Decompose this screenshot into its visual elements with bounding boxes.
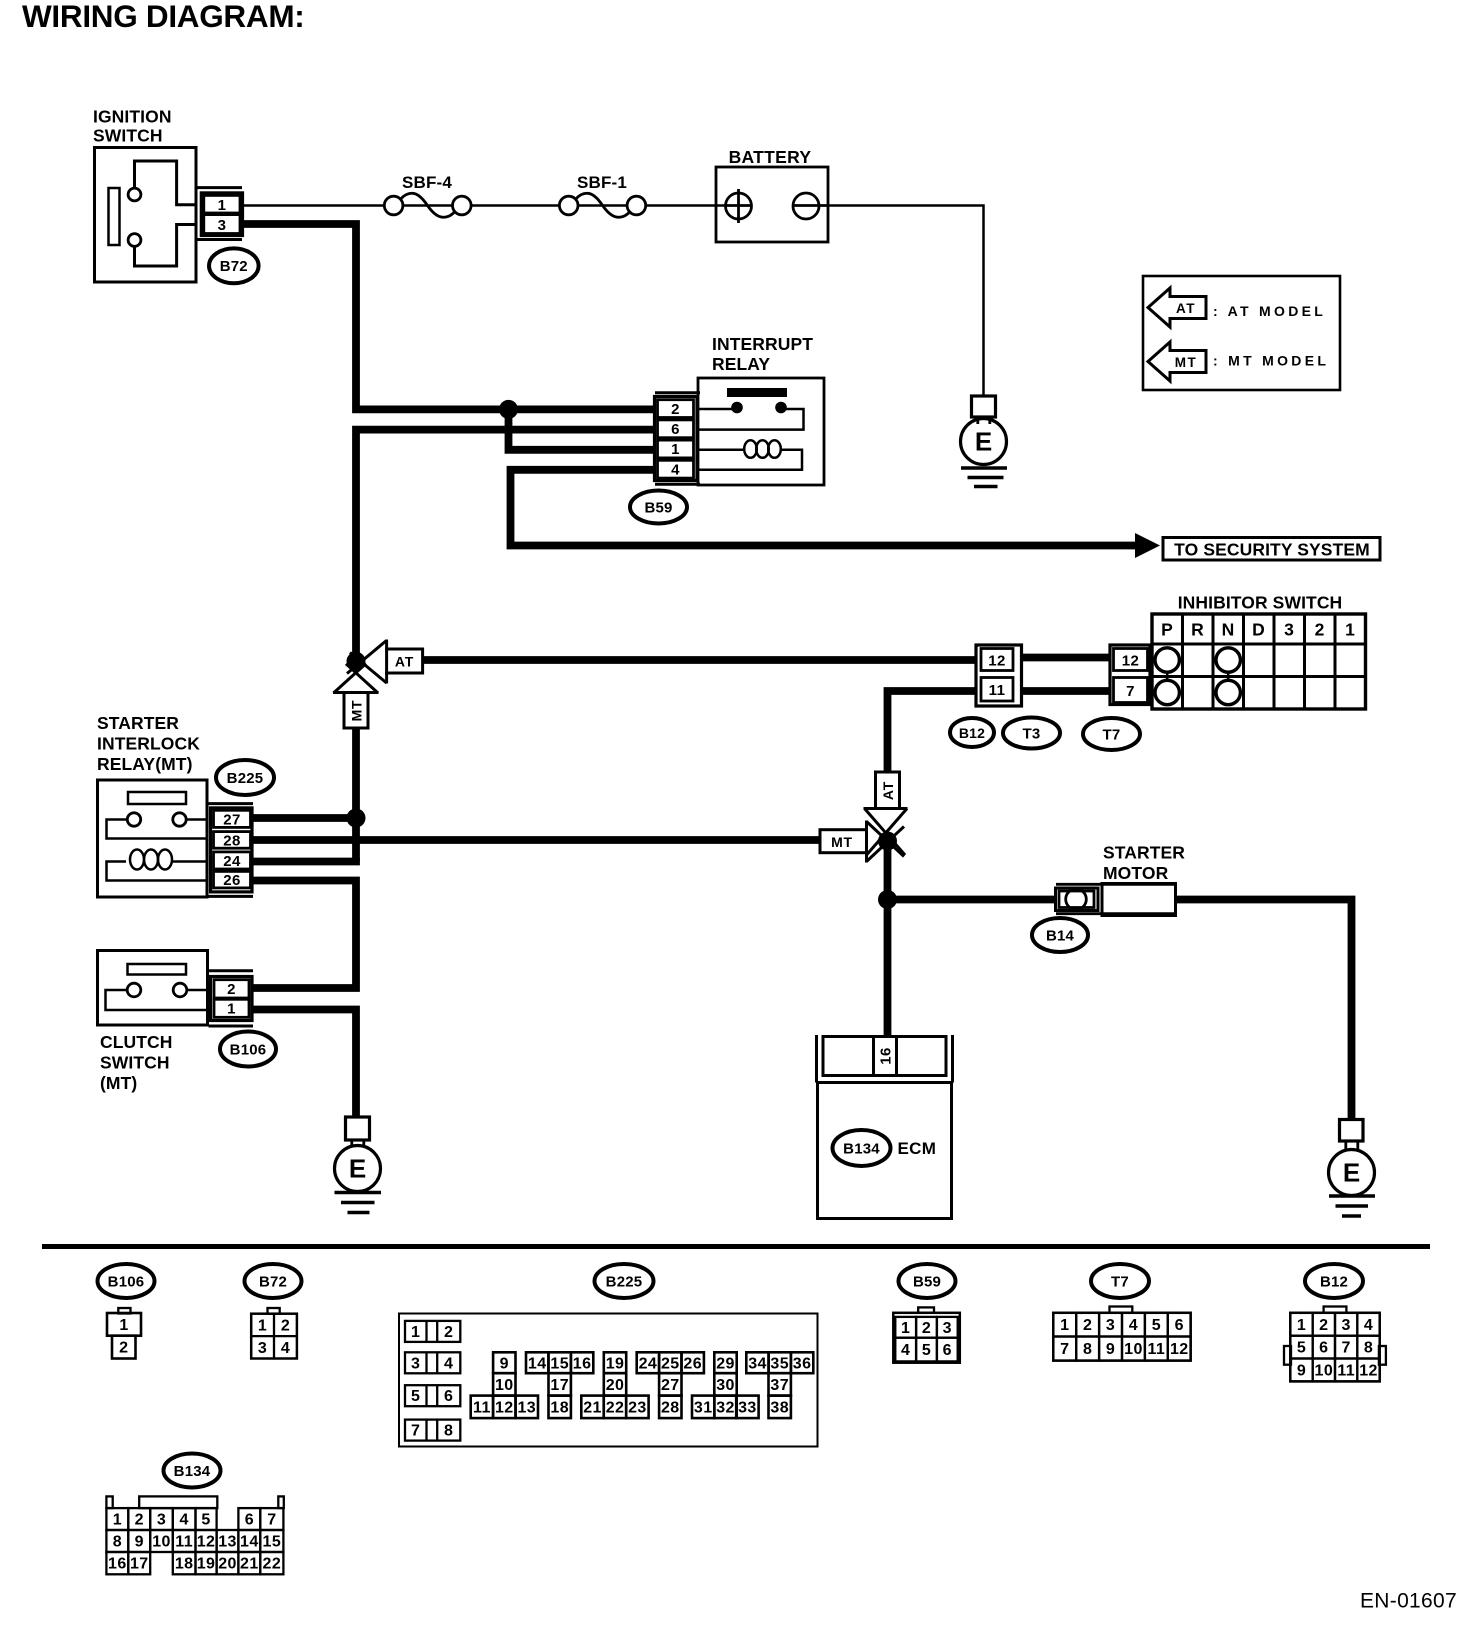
svg-text:E: E bbox=[1343, 1158, 1360, 1188]
wire pin26 down to clutch pin2 bbox=[252, 881, 356, 989]
MT arrow junction2 bbox=[867, 822, 905, 857]
wire 11 to T7 pin7 bbox=[1022, 687, 1111, 695]
svg-text:11: 11 bbox=[1147, 1341, 1165, 1358]
connector label B106 pinout bbox=[98, 1264, 155, 1298]
svg-text:SBF-4: SBF-4 bbox=[402, 173, 452, 192]
connector label B225 bbox=[216, 760, 274, 795]
security system arrowhead bbox=[1135, 533, 1160, 558]
svg-text:INHIBITOR SWITCH: INHIBITOR SWITCH bbox=[1178, 593, 1343, 613]
wire AT branch to inhibitor row 12 bbox=[420, 656, 977, 664]
svg-text:AT: AT bbox=[1176, 301, 1196, 316]
svg-text:13: 13 bbox=[218, 1534, 237, 1551]
svg-text:12: 12 bbox=[1122, 653, 1140, 670]
svg-text:6: 6 bbox=[1175, 1317, 1184, 1334]
wire battery to ground bbox=[828, 206, 984, 397]
connector label B134 bbox=[833, 1130, 891, 1166]
svg-text:16: 16 bbox=[878, 1047, 895, 1065]
inhibitor contact P-12 bbox=[1155, 648, 1179, 672]
svg-text:26: 26 bbox=[223, 872, 241, 889]
svg-text:7: 7 bbox=[411, 1423, 420, 1440]
svg-text:: AT MODEL: : AT MODEL bbox=[1213, 303, 1326, 319]
svg-text:T7: T7 bbox=[1103, 726, 1121, 743]
wire junction to ECM pin16 bbox=[884, 900, 892, 1037]
wire pin24 bbox=[252, 858, 360, 866]
svg-text:BATTERY: BATTERY bbox=[729, 147, 812, 167]
svg-text:1: 1 bbox=[218, 197, 227, 214]
svg-text:5: 5 bbox=[1152, 1317, 1161, 1334]
svg-text:3: 3 bbox=[1342, 1317, 1351, 1334]
svg-text:22: 22 bbox=[263, 1556, 282, 1573]
AT arrow junction1 bbox=[347, 641, 387, 674]
svg-text:29: 29 bbox=[716, 1355, 735, 1372]
junction dot 2 bbox=[878, 832, 897, 851]
svg-text:1: 1 bbox=[119, 1317, 128, 1334]
svg-text:15: 15 bbox=[550, 1355, 569, 1372]
svg-text:19: 19 bbox=[197, 1556, 216, 1573]
svg-text:1: 1 bbox=[113, 1512, 122, 1529]
svg-text:2: 2 bbox=[1315, 620, 1325, 640]
svg-text:2: 2 bbox=[444, 1324, 453, 1341]
wire clutch pin1 to ground bbox=[252, 1010, 356, 1118]
svg-text:7: 7 bbox=[1342, 1340, 1351, 1357]
svg-text:8: 8 bbox=[1364, 1340, 1373, 1357]
svg-text:14: 14 bbox=[528, 1355, 547, 1372]
svg-text:15: 15 bbox=[263, 1534, 282, 1551]
svg-text:28: 28 bbox=[223, 832, 241, 849]
svg-text:6: 6 bbox=[943, 1342, 952, 1359]
svg-text:2: 2 bbox=[671, 401, 680, 418]
connector label B12 pinout bbox=[1305, 1264, 1363, 1298]
connector label B72 pinout bbox=[245, 1264, 302, 1298]
svg-text:TO SECURITY SYSTEM: TO SECURITY SYSTEM bbox=[1174, 540, 1370, 560]
svg-text:2: 2 bbox=[119, 1340, 128, 1357]
svg-text:33: 33 bbox=[738, 1399, 757, 1416]
svg-text:B134: B134 bbox=[174, 1463, 211, 1480]
svg-text:AT: AT bbox=[880, 781, 896, 800]
connector label B12 bbox=[950, 718, 994, 747]
svg-text:9: 9 bbox=[135, 1534, 144, 1551]
svg-text:11: 11 bbox=[473, 1399, 491, 1416]
svg-text:RELAY(MT): RELAY(MT) bbox=[97, 754, 193, 774]
svg-text:P: P bbox=[1161, 620, 1173, 640]
svg-text:12: 12 bbox=[1170, 1341, 1189, 1358]
svg-text:3: 3 bbox=[411, 1355, 420, 1372]
connector B225 pinout bbox=[399, 1314, 818, 1447]
ground E battery bbox=[972, 396, 996, 417]
svg-text:2: 2 bbox=[135, 1512, 144, 1529]
wire pin1 to SBF-4 bbox=[242, 204, 385, 207]
svg-text:10: 10 bbox=[495, 1377, 514, 1394]
svg-text:23: 23 bbox=[628, 1399, 647, 1416]
connector T7 pins 12,7 bbox=[1110, 645, 1150, 705]
svg-text:36: 36 bbox=[793, 1355, 812, 1372]
wire pin27 to junction bbox=[252, 814, 356, 822]
svg-text:31: 31 bbox=[694, 1399, 713, 1416]
junction dot 1 bbox=[347, 652, 366, 671]
main vertical wire below MT arrow bbox=[352, 728, 360, 862]
svg-text:11: 11 bbox=[989, 682, 1006, 699]
svg-text:14: 14 bbox=[240, 1534, 259, 1551]
wire interrupt relay pin4 to security line bbox=[511, 470, 1137, 546]
connector label T3 bbox=[1003, 718, 1060, 749]
svg-text:1: 1 bbox=[901, 1320, 910, 1337]
svg-text:27: 27 bbox=[661, 1377, 680, 1394]
connector B225 pins 27,28,24,26 bbox=[209, 802, 254, 805]
svg-text:16: 16 bbox=[108, 1556, 127, 1573]
svg-text:2: 2 bbox=[227, 981, 236, 998]
svg-text:4: 4 bbox=[1129, 1317, 1138, 1334]
svg-text:B59: B59 bbox=[913, 1273, 941, 1290]
svg-text:SWITCH: SWITCH bbox=[100, 1053, 170, 1073]
junction dot starter bbox=[878, 890, 897, 909]
svg-text:RELAY: RELAY bbox=[712, 354, 770, 374]
svg-text:17: 17 bbox=[550, 1377, 569, 1394]
svg-text:R: R bbox=[1191, 620, 1204, 640]
connector label B106 bbox=[220, 1032, 276, 1067]
svg-text:MT: MT bbox=[348, 700, 364, 722]
svg-text:ECM: ECM bbox=[898, 1139, 937, 1158]
svg-text:B72: B72 bbox=[220, 258, 248, 275]
svg-text:17: 17 bbox=[130, 1556, 149, 1573]
connector B106 pinout bbox=[118, 1308, 130, 1314]
svg-text:4: 4 bbox=[179, 1512, 188, 1529]
svg-text:4: 4 bbox=[281, 1340, 290, 1357]
svg-text:T7: T7 bbox=[1111, 1273, 1129, 1290]
connector label B59 bbox=[630, 491, 687, 524]
connector B59 pins 2,6,1,4 bbox=[655, 391, 700, 394]
svg-text:10: 10 bbox=[1315, 1362, 1334, 1379]
svg-text:1: 1 bbox=[411, 1324, 420, 1341]
svg-text:5: 5 bbox=[201, 1512, 210, 1529]
svg-text:MT: MT bbox=[831, 834, 853, 850]
svg-text:26: 26 bbox=[683, 1355, 702, 1372]
svg-text:9: 9 bbox=[1106, 1341, 1115, 1358]
svg-text:2: 2 bbox=[281, 1318, 290, 1335]
connector label B72 bbox=[209, 248, 259, 283]
svg-text:4: 4 bbox=[1364, 1317, 1373, 1334]
svg-text:E: E bbox=[349, 1154, 366, 1184]
svg-text:: MT MODEL: : MT MODEL bbox=[1213, 353, 1329, 369]
legend MT arrow bbox=[1148, 342, 1206, 381]
svg-text:INTERRUPT: INTERRUPT bbox=[712, 334, 813, 354]
wire SBF-1 to battery bbox=[646, 204, 726, 207]
svg-text:3: 3 bbox=[258, 1340, 267, 1357]
svg-text:12: 12 bbox=[495, 1399, 514, 1416]
wire pin28 to MT arrow bbox=[252, 836, 822, 844]
connector B59 pinout bbox=[918, 1307, 934, 1312]
svg-text:IGNITION: IGNITION bbox=[93, 107, 172, 127]
svg-text:4: 4 bbox=[901, 1342, 910, 1359]
ground E starter bbox=[1340, 1120, 1364, 1142]
MT arrow junction1 bbox=[334, 664, 367, 694]
svg-text:B225: B225 bbox=[606, 1273, 643, 1290]
connector B72 pins 1,3 bbox=[197, 186, 242, 189]
svg-text:20: 20 bbox=[606, 1377, 625, 1394]
svg-text:27: 27 bbox=[223, 811, 241, 828]
svg-text:3: 3 bbox=[157, 1512, 166, 1529]
svg-text:7: 7 bbox=[267, 1512, 276, 1529]
wire junction to interrupt relay pin1 bbox=[509, 409, 656, 449]
svg-text:32: 32 bbox=[716, 1399, 735, 1416]
wire 11 branch down to AT arrow bbox=[888, 691, 978, 772]
svg-text:6: 6 bbox=[444, 1388, 453, 1405]
svg-text:8: 8 bbox=[113, 1534, 122, 1551]
inhibitor contact P-7 bbox=[1155, 680, 1179, 704]
svg-text:1: 1 bbox=[1297, 1317, 1306, 1334]
svg-text:3: 3 bbox=[218, 217, 227, 234]
svg-text:38: 38 bbox=[770, 1399, 789, 1416]
svg-text:SWITCH: SWITCH bbox=[93, 126, 163, 146]
svg-text:B72: B72 bbox=[259, 1273, 287, 1290]
svg-text:STARTER: STARTER bbox=[97, 713, 179, 733]
svg-text:24: 24 bbox=[639, 1355, 658, 1372]
ignition switch bbox=[95, 148, 197, 283]
svg-text:6: 6 bbox=[671, 421, 680, 438]
svg-text:16: 16 bbox=[573, 1355, 592, 1372]
svg-text:B59: B59 bbox=[644, 499, 672, 516]
svg-text:10: 10 bbox=[1124, 1341, 1143, 1358]
ground E clutch bbox=[346, 1117, 370, 1140]
inhibitor contact N-12 bbox=[1216, 648, 1240, 672]
wire to interrupt relay pin2 bbox=[352, 405, 655, 413]
svg-text:CLUTCH: CLUTCH bbox=[100, 1032, 173, 1052]
svg-text:N: N bbox=[1222, 620, 1235, 640]
svg-text:B134: B134 bbox=[843, 1140, 880, 1157]
svg-text:B225: B225 bbox=[227, 770, 264, 787]
svg-text:21: 21 bbox=[583, 1399, 602, 1416]
svg-text:24: 24 bbox=[223, 853, 241, 870]
connector B14 bbox=[1056, 883, 1176, 886]
connector label T7 bbox=[1083, 718, 1140, 750]
inhibitor switch table bbox=[1152, 614, 1366, 709]
svg-text:35: 35 bbox=[770, 1355, 789, 1372]
svg-text:12: 12 bbox=[197, 1534, 216, 1551]
connector label B14 bbox=[1032, 918, 1088, 952]
svg-text:MOTOR: MOTOR bbox=[1103, 863, 1169, 883]
svg-text:SBF-1: SBF-1 bbox=[577, 173, 627, 192]
connector B12 pinout bbox=[1324, 1307, 1347, 1313]
svg-text:B12: B12 bbox=[959, 725, 985, 741]
wire 12 to T7 bbox=[1022, 654, 1111, 662]
svg-text:18: 18 bbox=[175, 1556, 194, 1573]
svg-text:D: D bbox=[1252, 620, 1265, 640]
svg-text:20: 20 bbox=[218, 1556, 237, 1573]
svg-text:3: 3 bbox=[1284, 620, 1294, 640]
wire down to starter junction bbox=[884, 841, 892, 900]
svg-text:WIRING DIAGRAM:: WIRING DIAGRAM: bbox=[22, 0, 304, 34]
svg-text:B106: B106 bbox=[230, 1041, 267, 1058]
svg-text:9: 9 bbox=[500, 1355, 509, 1372]
svg-text:(MT): (MT) bbox=[100, 1073, 137, 1093]
interrupt relay bbox=[698, 378, 824, 485]
connector B12/T3 pins 12,11 bbox=[976, 645, 1022, 706]
svg-text:37: 37 bbox=[770, 1377, 789, 1394]
svg-text:1: 1 bbox=[1060, 1317, 1069, 1334]
svg-text:13: 13 bbox=[517, 1399, 536, 1416]
svg-text:B106: B106 bbox=[108, 1273, 145, 1290]
svg-text:3: 3 bbox=[1106, 1317, 1115, 1334]
wire ignition pin3 down to relay row bbox=[242, 224, 356, 406]
connector label T7 pinout bbox=[1091, 1264, 1149, 1298]
svg-text:INTERLOCK: INTERLOCK bbox=[97, 734, 200, 754]
separator line bbox=[42, 1244, 1430, 1249]
svg-text:STARTER: STARTER bbox=[1103, 843, 1185, 863]
connector B106 pins 2,1 bbox=[209, 969, 254, 972]
svg-text:B12: B12 bbox=[1320, 1273, 1348, 1290]
svg-text:B14: B14 bbox=[1046, 927, 1075, 944]
svg-text:1: 1 bbox=[227, 1001, 236, 1018]
svg-text:18: 18 bbox=[550, 1399, 569, 1416]
wire interrupt relay pin6 to main vertical bbox=[356, 430, 655, 662]
wire SBF-4 to SBF-1 bbox=[471, 204, 560, 207]
svg-text:19: 19 bbox=[606, 1355, 625, 1372]
svg-text:22: 22 bbox=[606, 1399, 625, 1416]
svg-text:34: 34 bbox=[748, 1355, 767, 1372]
svg-text:7: 7 bbox=[1060, 1341, 1069, 1358]
starter interlock relay bbox=[98, 780, 208, 897]
svg-text:12: 12 bbox=[988, 653, 1006, 670]
AT arrow junction2 bbox=[865, 809, 906, 856]
svg-text:EN-01607: EN-01607 bbox=[1360, 1590, 1457, 1613]
svg-text:2: 2 bbox=[1319, 1317, 1328, 1334]
svg-text:7: 7 bbox=[1126, 683, 1135, 700]
ECM connector pin16 bbox=[815, 1035, 818, 1083]
legend box bbox=[1143, 276, 1340, 390]
to security system box bbox=[1163, 538, 1380, 561]
svg-text:5: 5 bbox=[1297, 1340, 1306, 1357]
svg-text:1: 1 bbox=[671, 441, 680, 458]
svg-text:6: 6 bbox=[1319, 1340, 1328, 1357]
connector B72 pinout bbox=[268, 1308, 280, 1314]
wire starter motor to ground bbox=[1176, 900, 1352, 1120]
wire to starter motor bbox=[888, 896, 1057, 904]
svg-text:6: 6 bbox=[245, 1512, 254, 1529]
svg-text:E: E bbox=[975, 427, 992, 457]
connector T7 pinout bbox=[1110, 1307, 1133, 1313]
svg-text:8: 8 bbox=[444, 1423, 453, 1440]
battery bbox=[716, 167, 828, 242]
connector label B225 pinout bbox=[595, 1264, 654, 1298]
svg-text:11: 11 bbox=[175, 1534, 193, 1551]
svg-text:30: 30 bbox=[716, 1377, 735, 1394]
connector label B59 pinout bbox=[899, 1264, 956, 1298]
svg-text:T3: T3 bbox=[1023, 725, 1041, 742]
svg-text:21: 21 bbox=[240, 1556, 259, 1573]
svg-text:2: 2 bbox=[1083, 1317, 1092, 1334]
starter motor bbox=[1102, 884, 1176, 916]
junction dot interlock bbox=[347, 809, 366, 828]
svg-text:8: 8 bbox=[1083, 1341, 1092, 1358]
ECM box bbox=[818, 1083, 952, 1219]
svg-text:3: 3 bbox=[943, 1320, 952, 1337]
svg-text:1: 1 bbox=[1345, 620, 1355, 640]
svg-text:AT: AT bbox=[395, 653, 414, 669]
svg-text:28: 28 bbox=[661, 1399, 680, 1416]
svg-text:5: 5 bbox=[411, 1388, 420, 1405]
svg-text:5: 5 bbox=[922, 1342, 931, 1359]
svg-text:10: 10 bbox=[152, 1534, 171, 1551]
svg-text:12: 12 bbox=[1359, 1362, 1378, 1379]
svg-text:MT: MT bbox=[1175, 355, 1198, 370]
junction bbox=[499, 400, 518, 419]
svg-text:11: 11 bbox=[1337, 1362, 1355, 1379]
svg-text:4: 4 bbox=[671, 461, 680, 478]
svg-text:4: 4 bbox=[444, 1355, 453, 1372]
connector B134 pinout bbox=[106, 1496, 112, 1508]
svg-text:25: 25 bbox=[661, 1355, 680, 1372]
inhibitor contact N-7 bbox=[1216, 680, 1240, 704]
svg-text:2: 2 bbox=[922, 1320, 931, 1337]
svg-text:9: 9 bbox=[1297, 1362, 1306, 1379]
clutch switch bbox=[98, 951, 208, 1026]
connector label B134 pinout bbox=[164, 1454, 221, 1488]
svg-text:1: 1 bbox=[258, 1318, 267, 1335]
legend AT arrow bbox=[1148, 288, 1206, 327]
